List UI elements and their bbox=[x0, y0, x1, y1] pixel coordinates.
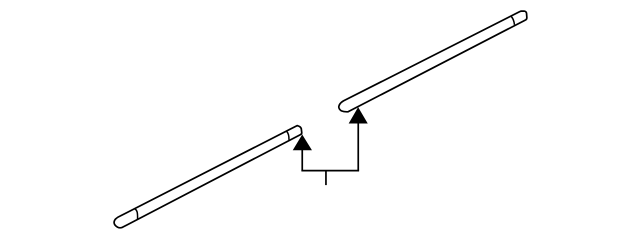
bracket center tick (label leader) bbox=[325, 171, 327, 186]
arrow 1 head (points to rod 1) bbox=[293, 135, 311, 150]
molding rod 2 right end cap line bbox=[511, 16, 515, 25]
arrow 2 head (points to rod 2) bbox=[349, 108, 367, 123]
molding rod 1 right end cap line bbox=[286, 131, 289, 140]
bracket horizontal bar joining both stems bbox=[301, 170, 359, 172]
molding rod 1 (lower left) outline bbox=[114, 126, 302, 228]
molding rod 1 left end cap line bbox=[134, 209, 137, 220]
molding rod 2 (upper right) outline bbox=[339, 11, 527, 112]
arrow 1 stem bbox=[301, 149, 303, 171]
arrow 2 stem bbox=[357, 122, 359, 170]
